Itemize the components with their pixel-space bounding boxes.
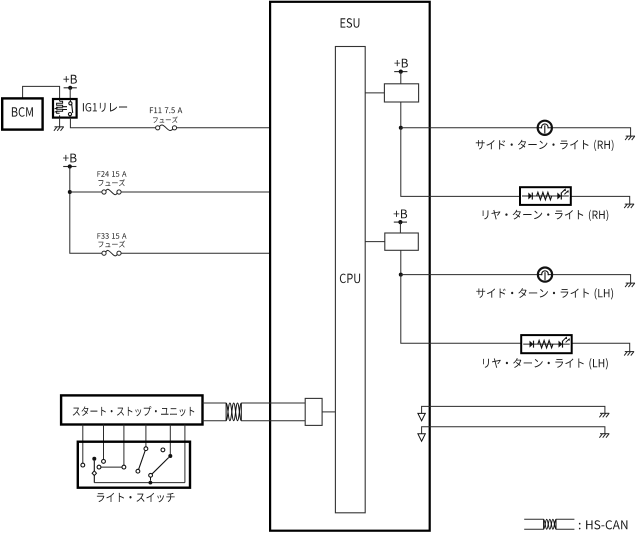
ground (side turn light LH): [625, 283, 635, 287]
label +B (F24/F33 feed): [63, 154, 77, 163]
wire +B to RH driver: [400, 72, 402, 84]
wire CAN-L twist to transceiver: [241, 420, 305, 422]
wire unit to switch contact 3: [123, 425, 125, 466]
switch arm 2 (turn L): [136, 447, 148, 473]
wire unit to switch common 5: [169, 425, 171, 455]
wire unit to switch contact 1: [82, 425, 84, 464]
legend twisted pair lines: [524, 519, 574, 529]
start-stop unit box: [61, 395, 202, 424]
wire CPU to LH driver: [365, 241, 385, 243]
label fuse (F11): [153, 116, 178, 122]
wire +B to IG1 relay switch: [69, 88, 71, 99]
wire unit to switch contact 4: [145, 425, 147, 447]
wire CAN-H unit to twist: [203, 402, 227, 404]
wire unit to switch contact 2: [103, 425, 105, 460]
wire to rear turn light LH: [401, 275, 630, 352]
switch contact 2: [102, 460, 106, 464]
legend twisted pair symbol: [544, 519, 556, 529]
label fuse (F33): [98, 241, 125, 248]
label side turn light LH: [476, 288, 613, 299]
wire IG1 relay switch to fuse F11: [70, 118, 155, 128]
label BCM: [12, 107, 33, 117]
label rear turn light RH: [483, 210, 609, 221]
label start-stop unit: [73, 406, 195, 416]
wire CPU to RH driver: [365, 92, 384, 94]
wire fuse F11 to ESU: [177, 127, 271, 129]
side turn light LH (bulb): [538, 268, 552, 282]
rear turn light LH (LED unit): [521, 335, 572, 353]
wire to side turn light RH: [401, 128, 631, 136]
label F11 7.5 A: [150, 107, 182, 113]
label F33 15 A: [98, 233, 127, 239]
label fuse (F24): [98, 179, 125, 186]
wire CAN-H twist to transceiver: [241, 402, 305, 404]
continuation arrow (CAN 1): [418, 413, 425, 420]
junction node F24 tap: [68, 190, 72, 194]
switch common bus: [94, 482, 185, 484]
label side turn light RH: [476, 140, 614, 151]
switch contact 3 and link: [97, 465, 126, 469]
label CPU: [340, 274, 360, 284]
ECU box ESU: [270, 2, 430, 531]
ground (IG1 relay coil): [54, 127, 64, 131]
wire RH driver output: [400, 102, 402, 128]
+B terminal (RH driver): [394, 70, 407, 74]
wire +B trunk to F33 row: [70, 167, 102, 254]
wire LH driver output: [400, 250, 402, 274]
label +B (LH driver): [394, 210, 408, 219]
wire junction to fuse F24: [70, 191, 102, 193]
module BCM: [2, 98, 42, 129]
wire IG1 relay coil to ground: [59, 118, 61, 127]
RH output driver: [384, 84, 418, 102]
label +B (RH driver): [394, 59, 408, 68]
side turn light RH (bulb): [538, 121, 552, 135]
CAN transceiver box: [305, 398, 322, 425]
+B terminal (IG1 relay): [64, 86, 77, 90]
junction on common bus: [149, 481, 153, 485]
junction node LH outputs: [399, 273, 403, 277]
wire to rear turn light RH: [401, 128, 630, 204]
label HS-CAN legend: [579, 520, 628, 529]
wire to side turn light LH: [401, 275, 631, 284]
wire unit to switch common 6: [184, 425, 186, 483]
CPU box: [335, 47, 365, 513]
label F24 15 A: [98, 171, 127, 177]
switch arm 3 (turn R): [149, 454, 173, 481]
label light switch: [97, 493, 175, 503]
label rear turn light LH: [483, 358, 608, 369]
label +B (IG1 relay): [63, 75, 77, 84]
switch contact 1: [81, 463, 85, 467]
LH output driver: [385, 233, 419, 250]
wire fuse F24 to ESU: [121, 191, 270, 193]
label ESU: [341, 18, 360, 28]
relay IG1: [53, 99, 77, 118]
ground (rear turn light LH): [624, 352, 634, 356]
wire BCM to IG1 relay coil: [23, 86, 60, 99]
continuation arrow (CAN 2): [418, 434, 425, 441]
switch arm 1 (lighting): [92, 457, 96, 483]
rear turn light RH (LED unit): [520, 187, 571, 205]
junction node RH outputs: [399, 126, 403, 130]
ground (side turn light RH): [625, 136, 635, 140]
fuse F33 15A: [102, 250, 121, 255]
+B terminal (LH driver): [394, 220, 407, 224]
wire transceiver to CPU: [322, 411, 335, 413]
fuse F11 7.5A: [156, 125, 177, 130]
label IG1 relay: [83, 103, 127, 112]
twisted pair (HS-CAN bus): [226, 403, 241, 421]
switch contact 7: [161, 448, 165, 452]
CAN branch line 2 elbow: [422, 427, 605, 434]
+B terminal (F24/F33 feed): [63, 164, 76, 168]
ground (CAN line 1): [599, 413, 609, 417]
wire +B to LH driver: [399, 222, 401, 233]
fuse F24 15A: [102, 189, 121, 194]
wire fuse F33 to ESU: [121, 252, 270, 254]
CAN branch line 1 elbow: [422, 406, 605, 413]
ground (rear turn light RH): [624, 204, 634, 208]
light switch box: [78, 442, 190, 488]
wire CAN-L unit to twist: [203, 420, 227, 422]
ground (CAN line 2): [599, 434, 609, 438]
